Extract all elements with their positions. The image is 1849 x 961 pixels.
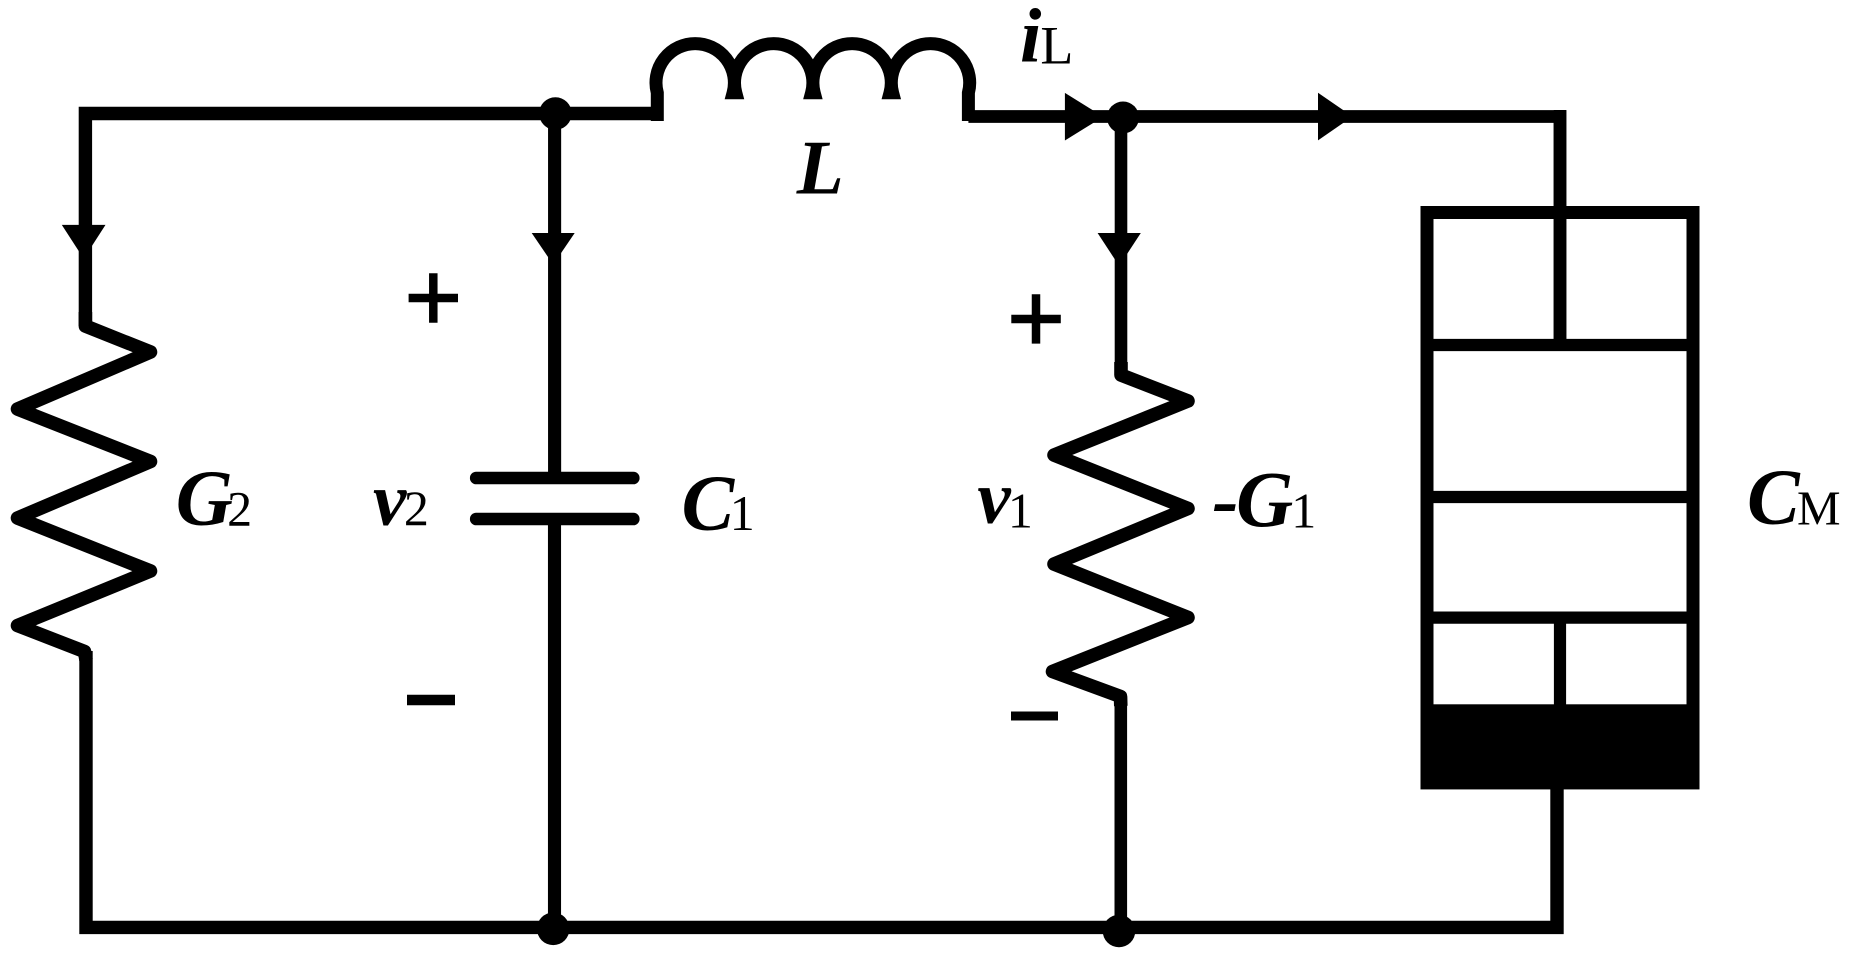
svg-text:v: v bbox=[977, 457, 1011, 540]
label - (v2) bbox=[407, 695, 455, 706]
arrowhead: current into G2 branch bbox=[62, 225, 106, 259]
svg-text:G: G bbox=[1236, 457, 1293, 544]
svg-text:i: i bbox=[1020, 0, 1042, 79]
node A: top of C1 bbox=[539, 97, 572, 130]
svg-text:1: 1 bbox=[730, 485, 755, 541]
memristor CM inner stub 2 bbox=[1554, 618, 1566, 710]
memristor CM bottom terminal bbox=[1551, 789, 1563, 927]
svg-text:2: 2 bbox=[227, 481, 252, 537]
memristor CM divider 3 bbox=[1427, 611, 1693, 623]
memristor CM black bar bbox=[1421, 704, 1700, 789]
memristor CM divider 2 bbox=[1427, 491, 1693, 503]
svg-text:G: G bbox=[176, 456, 233, 543]
wire: C1 top lead bbox=[548, 114, 561, 479]
svg-text:C: C bbox=[682, 461, 736, 548]
label - (v1) bbox=[1011, 712, 1058, 721]
wire: C1 bottom lead bbox=[548, 519, 561, 927]
svg-text:-: - bbox=[1212, 458, 1238, 545]
node C: bottom of C1 bbox=[537, 913, 570, 946]
capacitor C1 top plate bbox=[476, 472, 633, 485]
svg-text:v: v bbox=[373, 459, 407, 542]
wire: -G1 top lead bbox=[1115, 118, 1128, 376]
wire: -G1 bottom lead bbox=[1115, 697, 1128, 928]
node D: bottom of -G1 bbox=[1103, 915, 1136, 948]
svg-text:L: L bbox=[1040, 15, 1073, 75]
svg-text:1: 1 bbox=[1291, 482, 1316, 538]
inductor L bbox=[656, 44, 970, 121]
resistor G2 zigzag bbox=[18, 312, 151, 660]
label + (v1) bbox=[1011, 294, 1061, 343]
svg-text:2: 2 bbox=[404, 480, 429, 536]
svg-text:1: 1 bbox=[1008, 482, 1033, 538]
svg-text:L: L bbox=[796, 125, 844, 211]
arrowhead: current into C1 bbox=[532, 233, 575, 265]
capacitor C1 bottom plate bbox=[476, 513, 633, 526]
svg-text:M: M bbox=[1797, 481, 1841, 536]
memristor CM divider 1 bbox=[1427, 339, 1693, 351]
wire: inductor to CM top corner bbox=[968, 117, 1560, 346]
svg-text:C: C bbox=[1747, 455, 1801, 542]
label + (v2) bbox=[409, 273, 458, 322]
memristor CM top terminal and inner stub bbox=[1554, 110, 1567, 345]
wire: top-left horizontal with left vertical drop bbox=[85, 114, 656, 327]
memristor CM outline bbox=[1427, 213, 1693, 783]
arrowhead: current into CM bbox=[1318, 93, 1353, 141]
node B: top of -G1 bbox=[1107, 102, 1139, 134]
wire: G2 bottom lead bbox=[86, 651, 1557, 927]
resistor -G1 zigzag bbox=[1053, 362, 1189, 706]
arrowhead iL before node B bbox=[1065, 93, 1103, 141]
arrowhead: current into -G1 bbox=[1098, 233, 1141, 266]
